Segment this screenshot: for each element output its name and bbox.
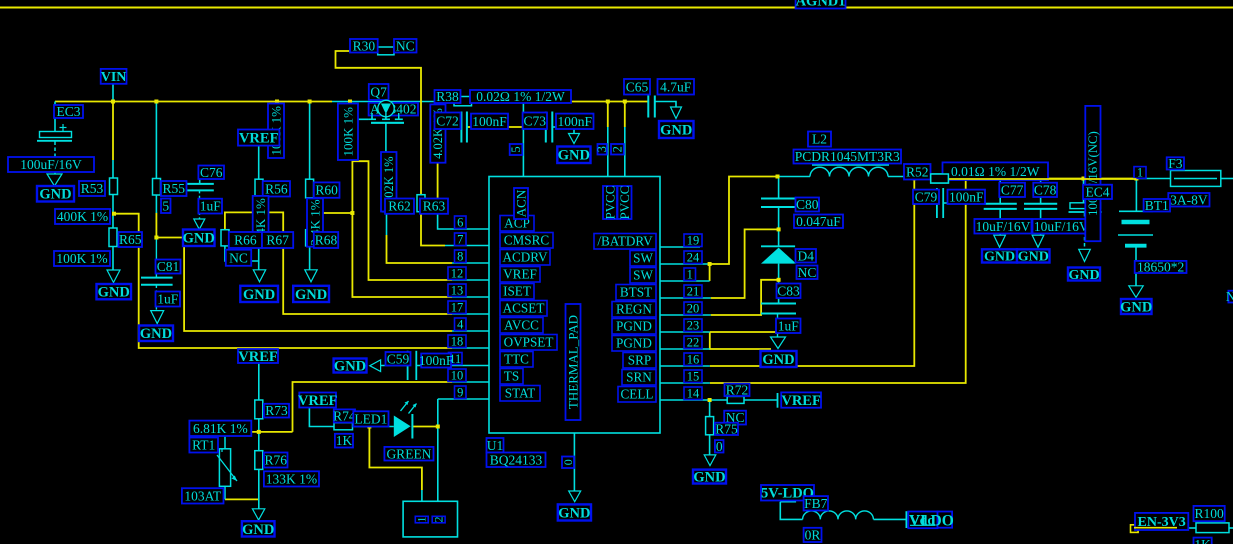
svg-text:R60: R60 [315, 183, 338, 198]
resistor R52 shunt [931, 174, 949, 183]
resistor R73 label [264, 404, 289, 418]
svg-text:R73: R73 [265, 403, 288, 418]
svg-text:AGND1: AGND1 [796, 0, 846, 10]
svg-text:C80: C80 [796, 197, 819, 212]
ground label C83 [761, 351, 797, 367]
wire Q7 source tap [350, 102, 368, 120]
ground R75 [704, 455, 716, 466]
ground label C73 [557, 147, 590, 164]
wire C72 node [438, 126, 462, 128]
ground C78 [1032, 235, 1044, 247]
thermistor RT1 label [189, 438, 218, 453]
svg-text:R63: R63 [423, 199, 446, 214]
svg-text:PGND: PGND [616, 336, 652, 351]
svg-text:0R: 0R [805, 527, 821, 542]
svg-text:BT1: BT1 [1145, 198, 1169, 213]
thermal pad pin number 0 [562, 457, 574, 469]
svg-text:4: 4 [457, 318, 464, 332]
capacitor C73 [545, 112, 547, 143]
svg-text:R75: R75 [715, 421, 738, 436]
resistor R30 labels [350, 39, 378, 53]
ground label C76 [183, 230, 215, 247]
wire R66 bottom join [225, 246, 259, 261]
capacitor C78 [1024, 203, 1057, 205]
wire VREF to R73 R76 column [258, 363, 260, 401]
svg-text:C65: C65 [626, 79, 649, 94]
svg-text:BTST: BTST [620, 285, 652, 300]
svg-text:GND: GND [39, 187, 71, 203]
svg-text:PVCC: PVCC [603, 186, 618, 220]
svg-text:10uF/16V: 10uF/16V [1034, 219, 1089, 234]
ground R68 [305, 270, 317, 282]
svg-text:SRP: SRP [628, 353, 651, 368]
svg-text:GND: GND [1068, 268, 1099, 283]
resistor R55 labels [161, 181, 187, 196]
wire PGND net [710, 331, 778, 333]
resistor R73 [255, 400, 263, 419]
svg-text:9: 9 [457, 386, 463, 400]
svg-text:STAT: STAT [505, 386, 535, 401]
ground label BT1 [1121, 299, 1152, 314]
ground label thermal [558, 504, 591, 520]
wire SW net [710, 177, 778, 265]
resistor R100 labels [1194, 506, 1225, 521]
svg-text:100nF: 100nF [419, 353, 454, 368]
capacitor C65 labels [624, 79, 650, 95]
resistor R75 label [715, 423, 738, 435]
svg-text:R66: R66 [234, 233, 257, 248]
EN-3V3 port square [1131, 525, 1139, 533]
wire VREF stub to R74 [309, 408, 334, 427]
svg-text:100uF/16V: 100uF/16V [20, 157, 82, 172]
svg-text:C73: C73 [524, 113, 547, 128]
resistor R66 [221, 230, 229, 246]
resistor R75 [706, 417, 714, 435]
capacitor EC4 electrolytic [1070, 203, 1101, 209]
svg-text:18: 18 [451, 335, 464, 349]
svg-text:GND: GND [660, 122, 692, 138]
wire ACP riser [437, 102, 439, 215]
svg-text:GND: GND [242, 522, 274, 538]
ground R65 [107, 270, 120, 283]
wire R53-R65 tap to OVPSET [114, 214, 452, 348]
svg-text:U1: U1 [487, 438, 504, 453]
ground EC3 [47, 174, 62, 186]
transistor Q7 symbol [378, 100, 394, 116]
svg-text:GND: GND [295, 287, 327, 303]
svg-text:F3: F3 [1168, 156, 1183, 171]
svg-text:VREF: VREF [239, 130, 279, 146]
svg-text:100nF: 100nF [949, 189, 984, 204]
wire R30 gate net [336, 51, 446, 246]
svg-text:GND: GND [762, 352, 794, 368]
svg-text:GND: GND [1120, 299, 1152, 315]
svg-text:103AT: 103AT [184, 488, 222, 503]
wire LED cathode to STAT [413, 426, 438, 428]
svg-text:RT1: RT1 [192, 438, 215, 453]
svg-text:10: 10 [451, 369, 464, 383]
wire R72 row to VREF port [710, 399, 728, 401]
value GREEN [384, 447, 433, 461]
resistor R63 [417, 195, 425, 212]
svg-text:TTC: TTC [504, 352, 529, 367]
svg-text:2: 2 [432, 517, 446, 523]
svg-text:5: 5 [509, 146, 523, 152]
svg-text:3: 3 [595, 146, 609, 152]
pin number 1 BT1 [1134, 167, 1146, 179]
svg-text:R68: R68 [315, 233, 338, 248]
svg-text:R56: R56 [265, 181, 288, 196]
net label VREF right [781, 392, 821, 407]
svg-text:PVCC: PVCC [617, 186, 632, 220]
ground label R75 [693, 470, 726, 484]
IC designator U1 BQ24133 [487, 438, 504, 453]
net label AGND1 [796, 0, 846, 9]
svg-text:24: 24 [687, 251, 700, 265]
svg-text:15: 15 [687, 370, 700, 384]
wire battery rail [905, 178, 1136, 180]
svg-text:NC: NC [229, 250, 248, 265]
net label EN-3V3 [1135, 513, 1188, 530]
ferrite FB7 labels [804, 496, 828, 510]
wire C79 kelvin stubs [914, 202, 937, 204]
svg-text:TS: TS [504, 369, 519, 384]
rotated value 100K B [338, 104, 358, 161]
svg-text:CELL: CELL [621, 387, 654, 402]
ground label R68 [293, 286, 329, 302]
wire pin5 ACN column [522, 103, 524, 177]
resistor R60 label [314, 182, 340, 197]
capacitor C77 [984, 203, 1017, 205]
wire LED to connector pin1 [369, 427, 422, 491]
svg-text:VREF: VREF [298, 393, 338, 409]
capacitor C76 [185, 183, 214, 185]
ground label C59 [334, 359, 367, 373]
wire VREF riser [352, 161, 452, 280]
svg-text:1K: 1K [1194, 537, 1211, 544]
svg-text:VREF: VREF [238, 349, 278, 365]
wire SRP net [710, 179, 915, 367]
value NC R66 [226, 250, 251, 266]
svg-text:21: 21 [687, 285, 700, 299]
ground label C77 [982, 249, 1017, 262]
svg-text:ACDRV: ACDRV [502, 250, 548, 265]
resistor R65 labels [119, 232, 143, 247]
svg-text:EC4: EC4 [1085, 184, 1109, 199]
wire R55 column [155, 102, 157, 180]
wire SW to L2 and C80 column [778, 176, 811, 178]
ground label C81 [139, 326, 173, 342]
resistor R67 [255, 230, 263, 246]
svg-text:1uF: 1uF [157, 292, 179, 307]
resistor R38 shunt [454, 97, 472, 106]
svg-text:R62: R62 [388, 199, 411, 214]
wire VREF to R56 R67 column [258, 146, 260, 180]
svg-text:R52: R52 [906, 164, 929, 179]
IC left pin names [500, 216, 534, 232]
capacitor EC3 electrolytic [40, 132, 72, 138]
svg-text:R65: R65 [119, 232, 142, 247]
svg-text:8: 8 [457, 250, 463, 264]
inductor L2 [810, 167, 888, 176]
svg-text:ACN: ACN [514, 189, 529, 217]
wire pin3 pin2 columns [607, 127, 609, 177]
ground label EC4 [1068, 268, 1100, 281]
svg-text:2: 2 [610, 146, 624, 152]
right pin numbers [684, 234, 702, 247]
svg-text:R38: R38 [436, 89, 459, 104]
pin number 3 [598, 144, 607, 155]
svg-text:0: 0 [716, 439, 723, 454]
svg-text:C79: C79 [915, 189, 938, 204]
svg-text:13: 13 [451, 284, 464, 298]
svg-text:100K 1%: 100K 1% [340, 107, 355, 157]
battery BT1 [1119, 210, 1153, 212]
LED LED1 label [353, 411, 388, 426]
svg-text:R30: R30 [353, 38, 376, 53]
svg-text:GND: GND [140, 326, 172, 342]
svg-text:100nF: 100nF [557, 114, 592, 129]
svg-text:1K: 1K [336, 433, 353, 448]
resistor R55 [153, 179, 161, 196]
fuse F3 [1171, 171, 1221, 187]
net label VREF R74 [299, 393, 336, 408]
svg-text:SW: SW [633, 251, 653, 266]
ground C81 [151, 311, 164, 324]
svg-text:Q7: Q7 [370, 85, 387, 100]
svg-text:1: 1 [1137, 166, 1143, 180]
svg-text:AVCC: AVCC [504, 318, 539, 333]
resistor R72 [727, 396, 744, 403]
capacitor EC4 label [1083, 185, 1112, 199]
svg-text:NC: NC [798, 265, 817, 280]
wire Q7 drain to R62 [385, 123, 387, 195]
L2 label underline [812, 164, 889, 166]
capacitor C79 labels [913, 190, 939, 204]
wire 100K col A [276, 102, 278, 135]
capacitor C59 labels [386, 352, 411, 366]
capacitor C81 labels [156, 260, 181, 274]
capacitor C72 [460, 112, 462, 143]
ferrite bead FB7 [803, 511, 874, 520]
svg-text:22: 22 [687, 336, 700, 350]
svg-text:R76: R76 [264, 453, 287, 468]
resistor R72 label [725, 384, 750, 396]
pin number 5 [510, 144, 523, 155]
ground RT1 R76 [252, 509, 264, 520]
resistor R100 [1196, 523, 1229, 533]
ground BT1 [1129, 286, 1143, 298]
wire EC4 riser [1083, 179, 1085, 206]
diode D4 labels [796, 249, 817, 263]
svg-text:ACSET: ACSET [503, 301, 545, 316]
rotated value 4.02K B [430, 104, 445, 162]
wire ACDRV riser [386, 212, 388, 235]
svg-text:R72: R72 [726, 382, 749, 397]
wire R60 R68 column [309, 102, 311, 180]
net label 5V-LDO [761, 485, 814, 501]
wire EC3 column [54, 102, 56, 134]
rotated value 4.02K A [381, 152, 397, 212]
svg-text:PGND: PGND [616, 319, 652, 334]
svg-text:6.81K 1%: 6.81K 1% [193, 421, 248, 436]
resistor R56 label [263, 181, 290, 196]
resistor R65 [109, 228, 117, 247]
IC rotated pin names ACN PVCC [514, 188, 528, 219]
svg-text:REGN: REGN [616, 302, 652, 317]
thermistor RT1 [219, 449, 230, 487]
wire C81 stubs [155, 238, 157, 278]
transistor Q7 labels [369, 84, 389, 100]
ground label C65 [659, 121, 694, 138]
resistor R38 labels [435, 90, 461, 103]
fuse F3 labels [1167, 157, 1184, 169]
capacitor C83 labels [777, 284, 801, 299]
wire AGND1 top bus [0, 7, 1233, 9]
ground C83 PGND [771, 337, 786, 349]
svg-text:GND: GND [334, 358, 366, 374]
svg-text:BQ24133: BQ24133 [490, 452, 543, 467]
resistor R63 label [420, 199, 448, 214]
svg-text:L2: L2 [812, 132, 827, 147]
resistor R74 [334, 423, 353, 430]
wire ISET riser [352, 158, 452, 297]
wire C65 right to GND [655, 102, 676, 108]
wire ACSET net [225, 212, 452, 314]
svg-text:GND: GND [98, 285, 130, 301]
svg-text:23: 23 [687, 319, 700, 333]
ground C73 [569, 134, 580, 144]
capacitor C65 [647, 96, 649, 118]
resistor R56 [255, 179, 263, 198]
svg-text:12: 12 [451, 267, 464, 281]
resistor R60 [306, 179, 314, 198]
svg-text:5: 5 [162, 198, 169, 213]
diode D4 [761, 245, 795, 247]
svg-text:10uF/16V: 10uF/16V [976, 219, 1031, 234]
value 6.81K RT1 [189, 421, 251, 436]
wire R75 column [709, 400, 711, 417]
svg-text:GND: GND [558, 148, 590, 164]
svg-text:0.02Ω 1% 1/2W: 0.02Ω 1% 1/2W [476, 89, 565, 104]
svg-text:1: 1 [415, 517, 429, 523]
svg-text:GREEN: GREEN [386, 446, 431, 461]
svg-text:C77: C77 [1001, 182, 1024, 197]
wire C77 C78 risers [999, 179, 1001, 204]
svg-text:16: 16 [687, 353, 700, 367]
wire C59 left to ground [381, 365, 408, 367]
resistor R30 [378, 47, 394, 55]
capacitor EC3 labels [54, 105, 83, 118]
svg-text:C78: C78 [1034, 182, 1057, 197]
capacitor C79 [936, 188, 938, 218]
svg-text:C72: C72 [436, 113, 459, 128]
capacitor C80 [761, 198, 796, 200]
svg-text:CMSRC: CMSRC [504, 233, 550, 248]
svg-text:ISET: ISET [503, 284, 531, 299]
svg-text:133K 1%: 133K 1% [266, 471, 317, 486]
svg-text:7: 7 [457, 233, 463, 247]
ground label EC3 [37, 186, 74, 202]
resistor R53 labels [79, 181, 105, 196]
cut net label NC right edge [1228, 291, 1233, 303]
svg-text:400K 1%: 400K 1% [57, 209, 108, 224]
wire VIN label stub / R53 column [112, 84, 114, 102]
wire left pin rows cyan stubs [452, 262, 489, 264]
op-amp U1 IC body [489, 177, 660, 434]
net label VLDO Vdd [908, 512, 937, 529]
svg-text:THERMAL_PAD: THERMAL_PAD [566, 315, 581, 409]
svg-text:4.7uF: 4.7uF [660, 79, 692, 94]
svg-text:LED1: LED1 [354, 411, 387, 426]
net EN-3V3 underline [1134, 527, 1177, 529]
svg-text:PCDR1045MT3R3: PCDR1045MT3R3 [795, 149, 900, 164]
ground C76 [194, 219, 205, 229]
svg-text:NC: NC [1226, 289, 1233, 304]
svg-text:100K 1%: 100K 1% [56, 251, 107, 266]
svg-text:OVPSET: OVPSET [504, 335, 554, 350]
LED LED1 [394, 416, 411, 438]
svg-text:GND: GND [693, 469, 725, 485]
resistor R76 labels [264, 453, 288, 468]
wire EN-3V3 to R100 [1184, 527, 1196, 529]
svg-text:FB7: FB7 [804, 496, 828, 511]
wire thermal pad stub [573, 433, 575, 491]
capacitor C77 C78 labels [999, 183, 1025, 197]
svg-text:14: 14 [687, 387, 700, 401]
svg-text:GND: GND [1018, 250, 1049, 265]
net label VIN [101, 69, 127, 84]
IC thermal pad name [566, 304, 581, 420]
svg-text:C83: C83 [777, 283, 800, 298]
resistor R67 label [262, 232, 293, 248]
resistor R53 [110, 178, 118, 195]
value 0 R75 [715, 440, 724, 452]
wire BTST net [711, 229, 779, 298]
svg-text:NC: NC [396, 38, 415, 53]
wire PVCC pin3 pin2 tops [607, 102, 609, 128]
svg-text:SRN: SRN [626, 370, 652, 385]
wire BT1 riser [1135, 179, 1137, 211]
wire R60-R68 tap [310, 212, 353, 214]
svg-text:19: 19 [687, 234, 700, 248]
wire C73 to GND [553, 127, 575, 134]
junction dots [111, 100, 115, 104]
svg-text:17: 17 [451, 301, 464, 315]
svg-text:VREF: VREF [503, 267, 537, 282]
svg-text:C76: C76 [200, 165, 223, 180]
capacitor C76 labels [198, 166, 224, 180]
value 103AT RT1 [182, 488, 224, 503]
ground C59 left arrow [370, 360, 381, 372]
resistor R68 [306, 230, 314, 246]
wire RT1 bottom [225, 498, 259, 500]
svg-text:1uF: 1uF [200, 199, 222, 214]
svg-text:C59: C59 [387, 351, 410, 366]
svg-text:C81: C81 [157, 259, 180, 274]
wire 5V-LDO port to FB7 [780, 501, 796, 503]
ground R66 R67 [253, 270, 265, 282]
connector J1 [421, 490, 423, 501]
svg-text:0.047uF: 0.047uF [796, 214, 841, 229]
capacitor C59 [407, 351, 409, 380]
svg-text:R67: R67 [266, 233, 289, 248]
svg-text:0.01Ω 1% 1/2W: 0.01Ω 1% 1/2W [951, 164, 1040, 179]
left pin numbers [455, 216, 467, 229]
svg-text:GND: GND [183, 231, 215, 247]
resistor R68 label [314, 232, 338, 248]
ground C77 [994, 235, 1006, 247]
